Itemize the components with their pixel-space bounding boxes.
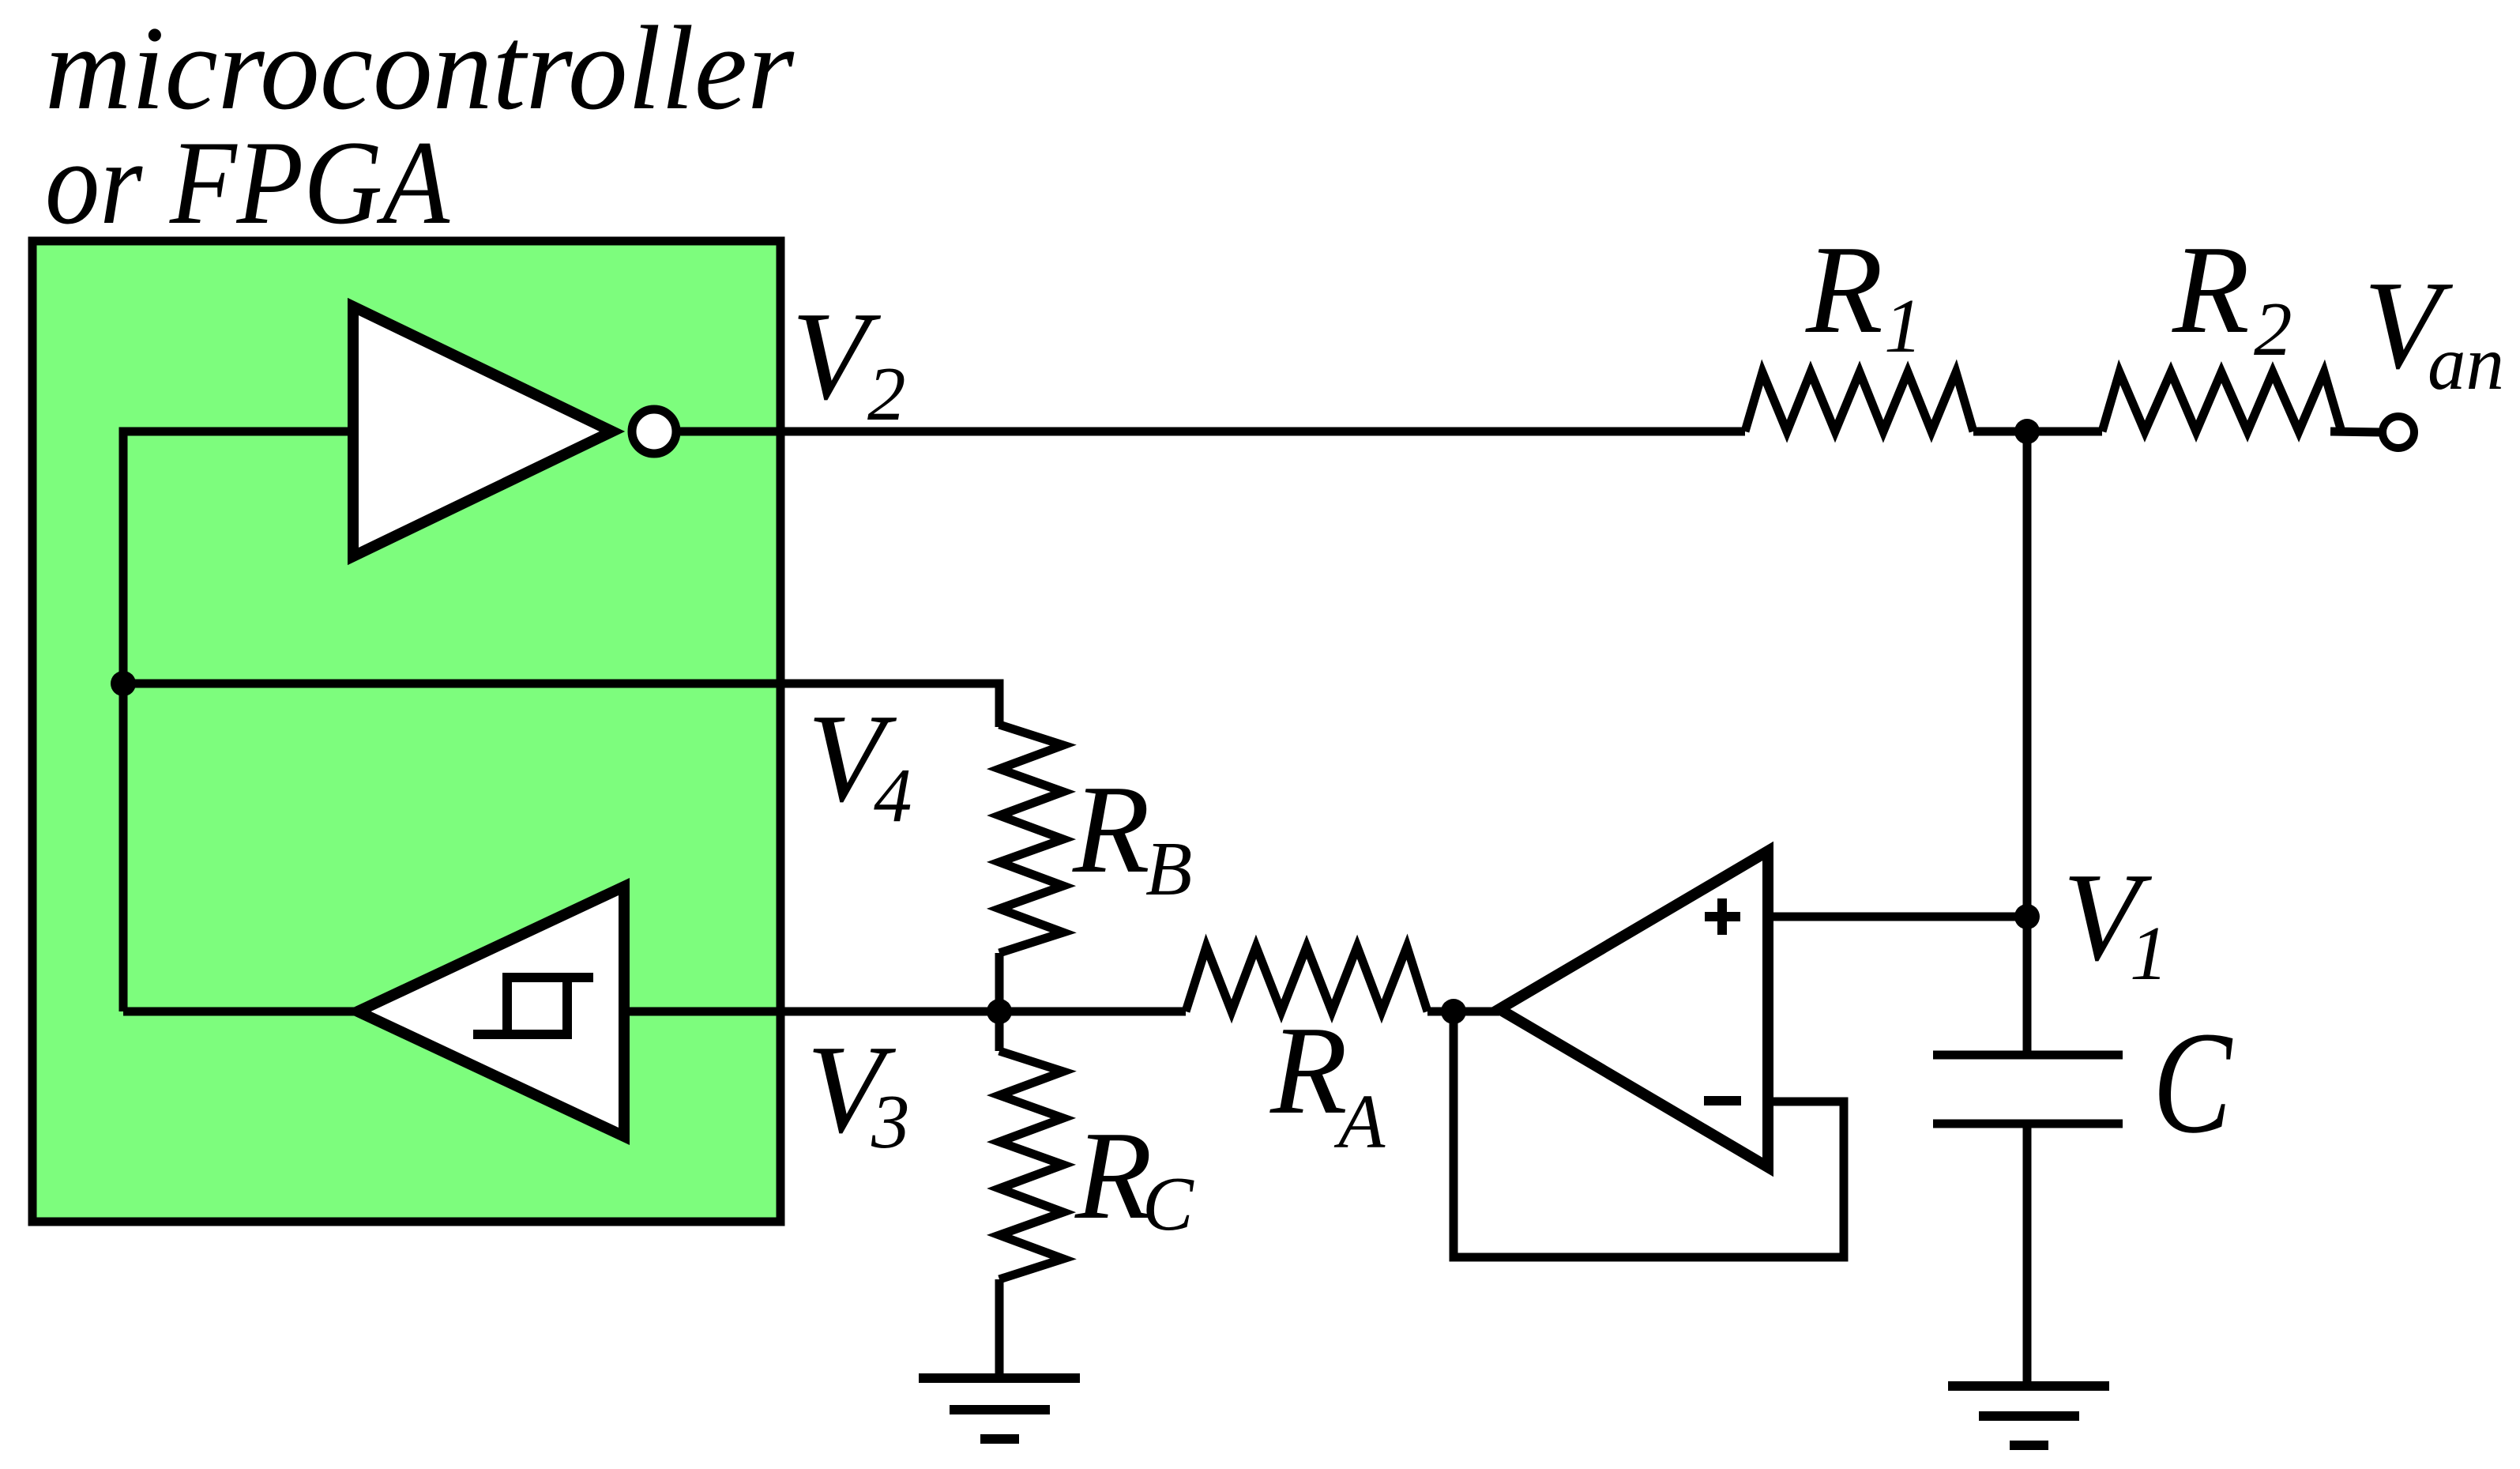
wire: V3 net - Schmitt input to RA (624, 1008, 1186, 1016)
svg-text:R: R (1072, 759, 1150, 899)
wire: RC top lead (995, 1011, 1004, 1051)
wire: RA to op-amp output node (1427, 1008, 1499, 1016)
svg-text:C: C (1142, 1162, 1194, 1246)
resistor R1 (1745, 372, 1973, 431)
op-amp - input symbol (1704, 1096, 1741, 1106)
svg-text:R: R (1269, 1000, 1348, 1140)
wire: R1 to R2 through junction (1973, 428, 2102, 436)
wire: inverter input (left vertical + horizontal into inverter) (123, 431, 353, 1011)
svg-text:4: 4 (874, 753, 912, 838)
node junction dot V2/R1/R2/C branch (2014, 419, 2040, 444)
Schmitt-trigger buffer U2 (points left) (358, 887, 624, 1136)
svg-text:R: R (1805, 219, 1883, 360)
resistor RB (999, 725, 1063, 953)
wire: right vertical from R1/R2 junction down to capacitor (2023, 431, 2032, 1055)
node junction dot op-amp output / feedback (1441, 999, 1466, 1024)
svg-text:2: 2 (2254, 287, 2292, 371)
wire: op-amp + input to V1 node (1772, 913, 2027, 921)
ground (below C) (1948, 1381, 2109, 1391)
svg-text:C: C (2153, 1002, 2233, 1164)
svg-text:A: A (1333, 1079, 1386, 1164)
svg-text:3: 3 (871, 1079, 910, 1164)
op-amp U3 voltage follower (points left) (1499, 851, 1768, 1167)
ground (below RC) (919, 1373, 1080, 1383)
label node V4 (807, 687, 912, 838)
microcontroller/FPGA block (32, 241, 780, 1222)
wire: RB bottom lead (995, 953, 1004, 1011)
node junction dot RB/RC/V3 (987, 999, 1012, 1024)
resistor R2 (2102, 372, 2341, 431)
wire: R2 to output terminal (2330, 431, 2380, 432)
svg-text:microcontroller: microcontroller (45, 2, 795, 134)
node junction dot V1 (2014, 904, 2040, 929)
inverter U1 output bubble (632, 409, 676, 454)
svg-text:B: B (1145, 827, 1192, 911)
label node Van (2364, 254, 2504, 405)
hysteresis symbol inside U2 (473, 977, 567, 1034)
svg-text:1: 1 (1884, 284, 1923, 368)
wire: feedback loop from output dot down, right, up to - input (1454, 1011, 1844, 1257)
label resistor label RB (1072, 759, 1192, 911)
svg-text:R: R (1074, 1105, 1153, 1245)
wire: capacitor bottom to ground (2023, 1124, 2032, 1386)
wire: Schmitt output to left vertical (123, 1008, 358, 1016)
svg-text:R: R (2172, 219, 2250, 360)
svg-text:2: 2 (867, 352, 906, 436)
op-amp + input symbol (1705, 912, 1740, 921)
resistor RC (999, 1051, 1063, 1279)
label node V1 (2063, 846, 2168, 996)
svg-text:1: 1 (2130, 911, 2168, 996)
label resistor label RA (1269, 1000, 1386, 1164)
label resistor label RC (1074, 1105, 1194, 1246)
label resistor label R2 (2172, 219, 2292, 371)
svg-text:an: an (2428, 321, 2504, 405)
capacitor C plates (1933, 1051, 2123, 1060)
terminal circle Van (2383, 416, 2414, 448)
wire: RC bottom lead to ground (995, 1279, 1004, 1378)
label node V3 (807, 1019, 910, 1164)
label resistor label R1 (1805, 219, 1923, 368)
node junction dot on left vertical (V4 tap) (111, 671, 136, 696)
wire: inverter output V2 to R1 (676, 428, 1745, 436)
label node V2 (792, 285, 906, 436)
svg-text:or FPGA: or FPGA (45, 116, 450, 249)
resistor RA (1186, 947, 1427, 1011)
wire: V4 net from junction to RB top (123, 684, 999, 727)
inverter U1 (NOT gate) (353, 307, 612, 556)
